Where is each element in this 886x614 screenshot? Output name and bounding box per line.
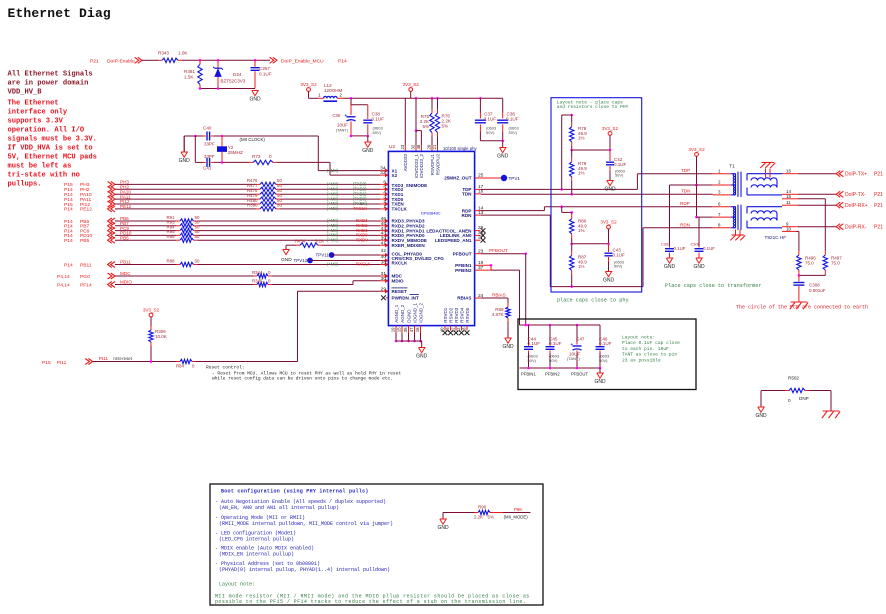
- svg-text:PB5: PB5: [80, 238, 90, 244]
- svg-text:PF14: PF14: [80, 282, 92, 288]
- svg-text:RSVD4: RSVD4: [459, 307, 464, 323]
- svg-text:pullups.: pullups.: [8, 181, 42, 189]
- svg-text:50: 50: [195, 234, 200, 239]
- svg-text:50V): 50V): [614, 264, 623, 269]
- svg-text:GND: GND: [362, 148, 374, 154]
- svg-text:D24: D24: [233, 72, 242, 77]
- svg-text:GND: GND: [693, 264, 705, 270]
- svg-text:75.0: 75.0: [831, 261, 840, 266]
- svg-text:C47: C47: [576, 337, 585, 342]
- svg-text:PI11: PI11: [99, 356, 109, 361]
- svg-text:nrst-reset: nrst-reset: [113, 356, 132, 361]
- svg-text:P21: P21: [874, 192, 883, 198]
- svg-text:PFBOUT: PFBOUT: [453, 251, 472, 256]
- svg-text:C306: C306: [691, 241, 700, 246]
- svg-text:P21: P21: [874, 171, 883, 177]
- svg-text:3V3_S2: 3V3_S2: [602, 126, 619, 131]
- svg-text:RSVD1: RSVD1: [443, 307, 448, 323]
- svg-text:0.1UF: 0.1UF: [599, 341, 612, 346]
- svg-text:0: 0: [788, 398, 791, 403]
- svg-text:AVDD33: AVDD33: [403, 154, 408, 172]
- svg-text:(+MII): (+MII): [327, 206, 339, 211]
- svg-text:0.1UF: 0.1UF: [549, 341, 562, 346]
- svg-text:must be left as: must be left as: [8, 163, 72, 171]
- svg-text:C40: C40: [203, 126, 212, 131]
- svg-text:Reset control:: Reset control:: [206, 364, 245, 370]
- svg-text:+: +: [345, 113, 348, 118]
- svg-text:50V): 50V): [599, 358, 608, 363]
- svg-text:47: 47: [409, 327, 414, 332]
- svg-text:35: 35: [403, 327, 408, 332]
- svg-text:PB11: PB11: [120, 260, 131, 265]
- svg-text:TPV1: TPV1: [509, 176, 521, 181]
- svg-text:GND: GND: [594, 379, 606, 385]
- svg-text:50V): 50V): [549, 358, 558, 363]
- svg-text:DoIP-Enable: DoIP-Enable: [107, 58, 135, 64]
- svg-text:25: 25: [478, 173, 484, 179]
- svg-text:10/100 single phy: 10/100 single phy: [443, 146, 478, 151]
- svg-text:(RMII_MODE internal pulldown,: (RMII_MODE internal pulldown, MII_MODE c…: [219, 521, 393, 527]
- svg-text:21: 21: [432, 144, 437, 149]
- svg-text:(+MII): (+MII): [327, 168, 339, 173]
- svg-text:RSVD2: RSVD2: [448, 307, 453, 323]
- svg-text:DP83848C: DP83848C: [421, 211, 441, 216]
- svg-text:RSVDPU2: RSVDPU2: [435, 154, 440, 176]
- svg-text:10: 10: [786, 227, 792, 232]
- svg-text:50V): 50V): [486, 130, 495, 135]
- svg-text:RDN: RDN: [462, 213, 473, 218]
- svg-text:P21: P21: [874, 203, 883, 209]
- svg-text:PI11: PI11: [57, 360, 67, 366]
- svg-text:PFBIN2: PFBIN2: [455, 268, 472, 273]
- svg-text:(MDIX_EN internal pullup): (MDIX_EN internal pullup): [219, 552, 294, 558]
- svg-text:C267: C267: [259, 66, 270, 71]
- svg-text:50V): 50V): [509, 130, 518, 135]
- svg-text:GND: GND: [497, 154, 509, 160]
- svg-text:P21: P21: [874, 224, 883, 230]
- svg-text:Place caps close to transforme: Place caps close to transformer: [665, 283, 762, 289]
- svg-text:R90: R90: [478, 505, 487, 510]
- svg-text:RDN: RDN: [680, 222, 690, 227]
- svg-text:0.1UF: 0.1UF: [613, 252, 626, 257]
- svg-text:VDD_HV_B: VDD_HV_B: [8, 89, 43, 97]
- svg-text:5V, Ethernet MCU pads: 5V, Ethernet MCU pads: [8, 154, 97, 162]
- svg-text:33: 33: [380, 170, 386, 176]
- svg-text:Layout note:: Layout note:: [622, 335, 655, 341]
- svg-text:GND: GND: [416, 354, 428, 360]
- svg-text:5%: 5%: [442, 124, 449, 129]
- svg-text:GND: GND: [755, 413, 767, 419]
- svg-text:PB5: PB5: [120, 235, 129, 240]
- svg-text:TPV12: TPV12: [294, 258, 308, 263]
- svg-text:DNP: DNP: [799, 396, 809, 401]
- svg-text:DoIP-RX-: DoIP-RX-: [845, 224, 867, 230]
- svg-text:P4,14: P4,14: [57, 282, 70, 288]
- svg-text:TPV11: TPV11: [316, 253, 330, 258]
- svg-text:1%: 1%: [578, 228, 585, 233]
- svg-text:DoIP-TX+: DoIP-TX+: [845, 171, 867, 177]
- svg-text:GND: GND: [603, 278, 615, 284]
- svg-text:IOVDD33_2: IOVDD33_2: [419, 154, 424, 179]
- svg-text:DGND: DGND: [406, 309, 411, 323]
- svg-text:to each pin. 10uF: to each pin. 10uF: [622, 346, 669, 352]
- svg-text:P14: P14: [338, 58, 347, 64]
- svg-text:R73: R73: [252, 154, 261, 159]
- svg-text:(MII_MODE): (MII_MODE): [504, 514, 529, 519]
- svg-text:TXCLK: TXCLK: [392, 207, 408, 212]
- svg-text:TXCLK: TXCLK: [353, 206, 367, 211]
- svg-text:PB11: PB11: [80, 262, 92, 268]
- svg-text:IOGND_2: IOGND_2: [418, 303, 423, 323]
- svg-text:X2: X2: [392, 173, 398, 178]
- svg-text:R88: R88: [167, 258, 176, 263]
- svg-text:25MHZ: 25MHZ: [228, 150, 243, 155]
- svg-text:15: 15: [786, 194, 792, 199]
- svg-text:4.87K: 4.87K: [492, 312, 504, 317]
- svg-text:LEDSPEED_AN1: LEDSPEED_AN1: [435, 238, 472, 243]
- svg-text:RXCLK: RXCLK: [356, 262, 370, 267]
- svg-text:TDN: TDN: [462, 192, 472, 197]
- svg-text:are in power domain: are in power domain: [8, 80, 89, 88]
- svg-text:16: 16: [415, 327, 420, 332]
- svg-text:P14: P14: [64, 262, 73, 268]
- svg-text:DoIP_Enable_MCU: DoIP_Enable_MCU: [281, 58, 324, 64]
- svg-text:RXDV: RXDV: [356, 237, 368, 242]
- svg-text:3V3_S2: 3V3_S2: [600, 219, 617, 224]
- svg-text:RSVD5: RSVD5: [465, 307, 470, 323]
- svg-text:15: 15: [397, 327, 402, 332]
- svg-text:R434: R434: [295, 239, 306, 244]
- svg-text:RBIAS: RBIAS: [492, 293, 506, 298]
- svg-text:0.1UF: 0.1UF: [703, 246, 715, 251]
- svg-text:30: 30: [381, 276, 387, 282]
- svg-text:P96: P96: [514, 507, 523, 512]
- svg-text:P14: P14: [64, 238, 73, 244]
- svg-text:23: 23: [400, 144, 405, 149]
- svg-text:(LED_CFG internal pullup): (LED_CFG internal pullup): [219, 537, 294, 543]
- svg-text:GND: GND: [664, 264, 676, 270]
- svg-text:(PHYAD(0) internal pullup, PHY: (PHYAD(0) internal pullup, PHYAD(1..4) i…: [219, 567, 390, 573]
- svg-text:If VDD_HVA is set to: If VDD_HVA is set to: [8, 145, 93, 153]
- svg-text:PFBOUT: PFBOUT: [571, 372, 588, 377]
- svg-text:41: 41: [381, 240, 387, 246]
- svg-text:PFBIN1: PFBIN1: [521, 372, 536, 377]
- svg-text:+: +: [571, 342, 574, 347]
- svg-text:GND: GND: [249, 97, 261, 103]
- svg-text:possible to the PF15 / PF14 tr: possible to the PF15 / PF14 tracks to re…: [215, 599, 526, 605]
- svg-text:RXER_MDIXEN: RXER_MDIXEN: [392, 243, 426, 248]
- svg-text:50V): 50V): [615, 173, 624, 178]
- svg-text:RXCLK: RXCLK: [392, 261, 409, 266]
- svg-text:1%: 1%: [578, 264, 585, 269]
- svg-text:20: 20: [427, 144, 432, 149]
- svg-text:(TANT): (TANT): [567, 356, 580, 361]
- svg-text:DoIP-RX+: DoIP-RX+: [845, 203, 868, 209]
- svg-text:0.1UF: 0.1UF: [528, 341, 541, 346]
- svg-text:C41: C41: [203, 166, 212, 171]
- svg-text:R345: R345: [252, 278, 263, 283]
- svg-text:signals must be 3.3V.: signals must be 3.3V.: [8, 136, 97, 144]
- svg-text:(+MII): (+MII): [327, 237, 339, 242]
- svg-text:0.1UF: 0.1UF: [259, 72, 272, 77]
- svg-text:operation. All I/O: operation. All I/O: [8, 127, 85, 135]
- svg-text:AGND_1: AGND_1: [394, 304, 399, 323]
- svg-text:Ethernet Diag: Ethernet Diag: [8, 6, 111, 21]
- svg-text:5%: 5%: [422, 124, 429, 129]
- svg-text:AGND_2: AGND_2: [400, 304, 405, 323]
- svg-text:1%: 1%: [578, 171, 585, 176]
- svg-text:0.1UF: 0.1UF: [372, 117, 385, 122]
- svg-text:1.5K: 1.5K: [184, 75, 194, 80]
- svg-text:29: 29: [381, 286, 387, 292]
- svg-text:MDIO: MDIO: [120, 280, 132, 285]
- svg-text:16: 16: [786, 168, 792, 173]
- svg-text:GND: GND: [437, 525, 449, 531]
- svg-text:Place 0.1uF cap close: Place 0.1uF cap close: [622, 340, 680, 346]
- svg-text:48: 48: [416, 144, 421, 149]
- svg-text:5.1K: 5.1K: [315, 239, 324, 244]
- svg-text:50V): 50V): [528, 358, 537, 363]
- svg-text:R390: R390: [247, 203, 258, 208]
- svg-text:0.1UF: 0.1UF: [484, 117, 497, 122]
- svg-text:TDP: TDP: [681, 168, 690, 173]
- svg-text:PFBOUT: PFBOUT: [489, 248, 508, 253]
- svg-text:50: 50: [195, 258, 200, 263]
- svg-text:GND: GND: [281, 257, 292, 263]
- svg-text:R343: R343: [158, 51, 169, 56]
- svg-text:GND: GND: [502, 344, 514, 350]
- svg-text:PG0: PG0: [80, 274, 90, 280]
- svg-text:33PF: 33PF: [204, 154, 215, 159]
- svg-text:(TANT): (TANT): [336, 128, 349, 132]
- svg-text:5%: 5%: [488, 515, 494, 520]
- svg-text:RSVDPU1: RSVDPU1: [430, 154, 435, 176]
- svg-text:RSVD3: RSVD3: [454, 307, 459, 323]
- svg-text:42: 42: [381, 248, 387, 254]
- svg-text:50V): 50V): [373, 130, 382, 135]
- svg-text:25MHZ_OUT: 25MHZ_OUT: [444, 176, 472, 181]
- svg-text:10.0K: 10.0K: [155, 334, 167, 339]
- svg-text:0: 0: [269, 154, 272, 159]
- svg-text:P4,14: P4,14: [57, 274, 70, 280]
- svg-text:P15: P15: [42, 360, 51, 366]
- svg-text:1.0K: 1.0K: [178, 51, 188, 56]
- svg-text:interface only: interface only: [8, 109, 68, 117]
- svg-text:19: 19: [391, 327, 396, 332]
- svg-text:1%: 1%: [578, 136, 585, 141]
- svg-text:RDP: RDP: [680, 201, 690, 206]
- svg-text:11: 11: [786, 200, 791, 205]
- svg-text:23 as possible: 23 as possible: [622, 357, 661, 363]
- svg-text:The circle of the PCB are conn: The circle of the PCB are connected to e…: [736, 305, 868, 311]
- svg-text:IOVDD33_1: IOVDD33_1: [414, 154, 419, 179]
- svg-text:Layout note:: Layout note:: [219, 582, 255, 588]
- svg-text:1: 1: [383, 204, 386, 210]
- svg-text:All Ethernet Signals: All Ethernet Signals: [8, 71, 93, 79]
- svg-text:MDIO: MDIO: [392, 279, 404, 284]
- svg-text:RESET: RESET: [392, 289, 408, 294]
- svg-text:TDN: TDN: [681, 189, 690, 194]
- svg-text:R481: R481: [184, 69, 195, 74]
- svg-text:PE12: PE12: [80, 207, 92, 213]
- svg-text:3V3_S2: 3V3_S2: [688, 147, 705, 152]
- svg-text:33PF: 33PF: [204, 142, 215, 147]
- svg-text:3V3_S2: 3V3_S2: [143, 308, 160, 313]
- svg-text:T921C HF: T921C HF: [765, 235, 787, 240]
- svg-text:RBIAS: RBIAS: [457, 296, 471, 301]
- svg-text:GND: GND: [179, 158, 191, 164]
- svg-text:0.001uF: 0.001uF: [809, 288, 826, 293]
- svg-text:27: 27: [478, 235, 484, 241]
- svg-text:TANT as close to pin: TANT as close to pin: [622, 352, 677, 358]
- svg-text:0.1UF: 0.1UF: [614, 162, 627, 167]
- svg-text:T1: T1: [729, 164, 735, 169]
- svg-text:0.1UF: 0.1UF: [674, 246, 686, 251]
- svg-text:supports 3.3V: supports 3.3V: [8, 118, 64, 126]
- svg-text:GND: GND: [604, 187, 616, 193]
- svg-text:50: 50: [277, 203, 282, 208]
- svg-text:PWRDN_INT: PWRDN_INT: [392, 296, 420, 301]
- svg-text:PE12: PE12: [120, 204, 132, 209]
- svg-text:Boot configuration (using PHY: Boot configuration (using PHY internal p…: [221, 489, 369, 495]
- svg-text:3V3_S2: 3V3_S2: [300, 82, 317, 87]
- svg-text:C39: C39: [332, 113, 340, 118]
- svg-text:U2: U2: [389, 144, 395, 150]
- svg-text:while reset config data can be: while reset config data can be driven on…: [212, 375, 393, 381]
- svg-text:C302: C302: [661, 241, 670, 246]
- svg-text:MDC: MDC: [120, 271, 131, 276]
- svg-text:75.0: 75.0: [805, 261, 814, 266]
- svg-text:C308: C308: [809, 283, 820, 288]
- svg-text:tri-state with no: tri-state with no: [8, 172, 80, 180]
- svg-text:10UF: 10UF: [337, 123, 348, 128]
- svg-text:R344: R344: [252, 270, 263, 275]
- svg-text:R96: R96: [167, 234, 176, 239]
- svg-text:3V3_S2: 3V3_S2: [403, 82, 420, 87]
- svg-text:IOGND_1: IOGND_1: [412, 303, 417, 323]
- svg-text:(AN_EN, AN0 and AN1 all intern: (AN_EN, AN0 and AN1 all internal pullup): [219, 505, 339, 511]
- svg-text:The Ethernet: The Ethernet: [8, 100, 59, 108]
- svg-text:(MII CLOCK): (MII CLOCK): [240, 137, 266, 142]
- svg-text:P14: P14: [64, 207, 73, 213]
- svg-text:38: 38: [381, 260, 387, 266]
- svg-text:(+MII): (+MII): [327, 262, 339, 267]
- svg-text:DoIP-TX-: DoIP-TX-: [845, 192, 866, 198]
- svg-text:0.1UF: 0.1UF: [506, 117, 519, 122]
- svg-text:place caps close to phy: place caps close to phy: [557, 298, 629, 304]
- svg-text:2.2K: 2.2K: [474, 515, 483, 520]
- svg-text:BZT52C3V3: BZT52C3V3: [221, 79, 246, 84]
- svg-text:and resistors close to PHY: and resistors close to PHY: [557, 104, 629, 110]
- svg-text:32: 32: [411, 144, 416, 149]
- svg-text:R84: R84: [176, 364, 185, 369]
- svg-text:R502: R502: [788, 376, 799, 381]
- svg-text:P21: P21: [90, 58, 99, 64]
- svg-text:PFBIN2: PFBIN2: [545, 372, 560, 377]
